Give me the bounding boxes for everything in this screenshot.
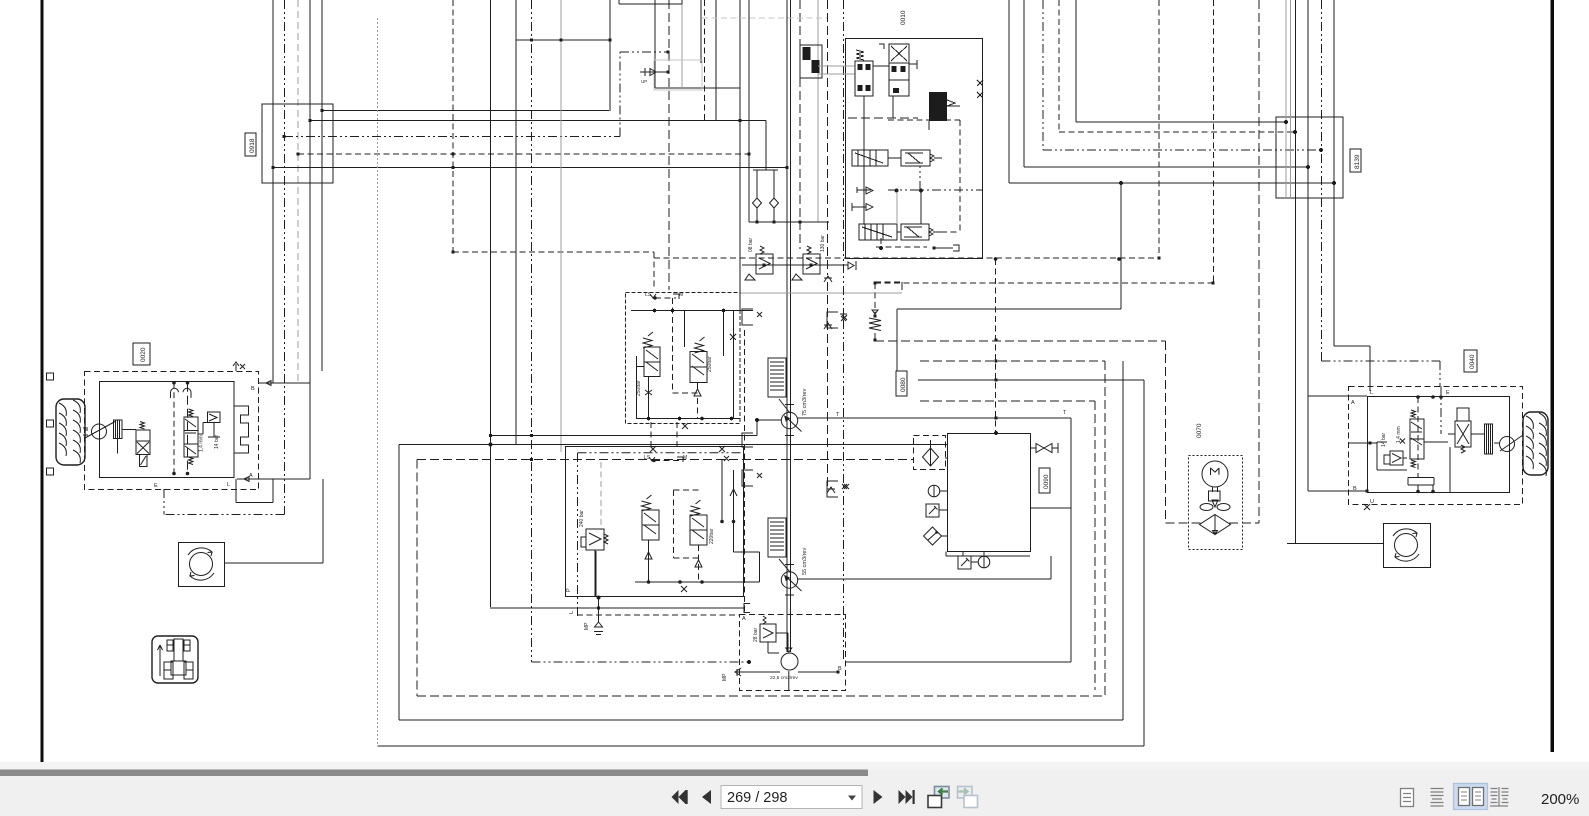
svg-text:A: A: [742, 616, 746, 622]
svg-text:UP: UP: [641, 79, 647, 84]
svg-text:L: L: [227, 482, 230, 488]
svg-text:0020: 0020: [140, 347, 147, 362]
svg-text:0040: 0040: [1469, 354, 1476, 369]
svg-text:Σ: Σ: [1207, 467, 1223, 476]
svg-text:0070: 0070: [1196, 423, 1203, 438]
svg-text:55 cm3/rev: 55 cm3/rev: [802, 548, 808, 575]
svg-text:14 bar: 14 bar: [1381, 432, 1387, 447]
svg-text:0918: 0918: [249, 138, 256, 153]
svg-text:1,4 mm: 1,4 mm: [1396, 426, 1402, 443]
svg-text:P: P: [566, 588, 572, 592]
svg-text:E: E: [154, 483, 158, 489]
svg-text:250bar: 250bar: [636, 380, 642, 396]
svg-text:8139: 8139: [1354, 154, 1361, 169]
svg-text:MP: MP: [722, 673, 728, 681]
svg-text:14 bar: 14 bar: [214, 434, 220, 449]
svg-text:MP: MP: [584, 622, 590, 630]
svg-text:28 bar: 28 bar: [753, 627, 759, 642]
svg-text:E: E: [1446, 390, 1450, 396]
svg-text:U: U: [1370, 499, 1374, 505]
svg-text:75 cm3/rev: 75 cm3/rev: [802, 389, 808, 416]
svg-text:M: M: [683, 455, 687, 461]
svg-text:0080: 0080: [900, 377, 907, 392]
svg-text:220bar: 220bar: [709, 528, 715, 544]
svg-text:LS: LS: [645, 292, 652, 298]
svg-text:B: B: [251, 386, 255, 392]
svg-text:269 / 298: 269 / 298: [727, 790, 787, 806]
svg-text:240 bar: 240 bar: [579, 510, 585, 527]
svg-text:0090: 0090: [1043, 474, 1050, 489]
svg-text:250bar: 250bar: [707, 356, 713, 372]
svg-text:LS: LS: [644, 455, 651, 461]
svg-text:22,5 cm3/rev: 22,5 cm3/rev: [770, 675, 798, 681]
svg-text:A: A: [1351, 400, 1355, 406]
svg-text:200%: 200%: [1541, 791, 1579, 808]
svg-text:L: L: [1370, 390, 1373, 396]
svg-text:08 bar: 08 bar: [748, 237, 754, 252]
svg-text:M: M: [679, 292, 683, 298]
svg-text:1,4 mm: 1,4 mm: [199, 435, 205, 452]
svg-text:B: B: [1353, 486, 1357, 492]
svg-text:L: L: [569, 611, 575, 614]
svg-text:130 bar: 130 bar: [820, 235, 826, 252]
svg-text:A: A: [249, 473, 253, 479]
svg-text:0010: 0010: [900, 10, 907, 25]
